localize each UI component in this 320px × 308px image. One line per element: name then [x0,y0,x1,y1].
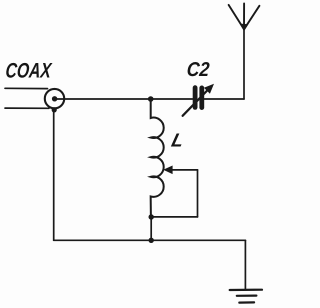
wire tap right vertical [197,170,199,217]
inductor L [151,99,164,217]
wire main horizontal (coax pin to C2) [55,98,193,100]
coax center pin [52,96,57,101]
ground [230,290,262,303]
coax connector J1 [45,89,64,108]
junction at coax connector bottom [52,107,57,112]
wire tap bottom horizontal [151,216,197,218]
capacitor C2 plates [193,88,198,108]
wire coax shield top lead [5,87,48,89]
wire ground drop vertical [244,240,246,289]
junction at inductor bottom / tap [149,214,154,219]
wire inductor bottom to bottom rail [150,217,152,240]
wire bottom horizontal [54,239,246,241]
junction at inductor top [148,96,154,102]
junction on bottom wire [149,238,154,243]
wire coax bottom lead [5,107,49,109]
antenna [229,4,260,30]
wire left vertical [53,110,55,240]
svg-text:COAX: COAX [5,60,54,83]
wire C2 to antenna [204,98,244,100]
capacitor C2 variable arrow [183,91,208,116]
svg-text:C2: C2 [186,59,210,81]
inductor tap arrow [166,169,198,171]
wire antenna feed vertical [243,29,245,99]
